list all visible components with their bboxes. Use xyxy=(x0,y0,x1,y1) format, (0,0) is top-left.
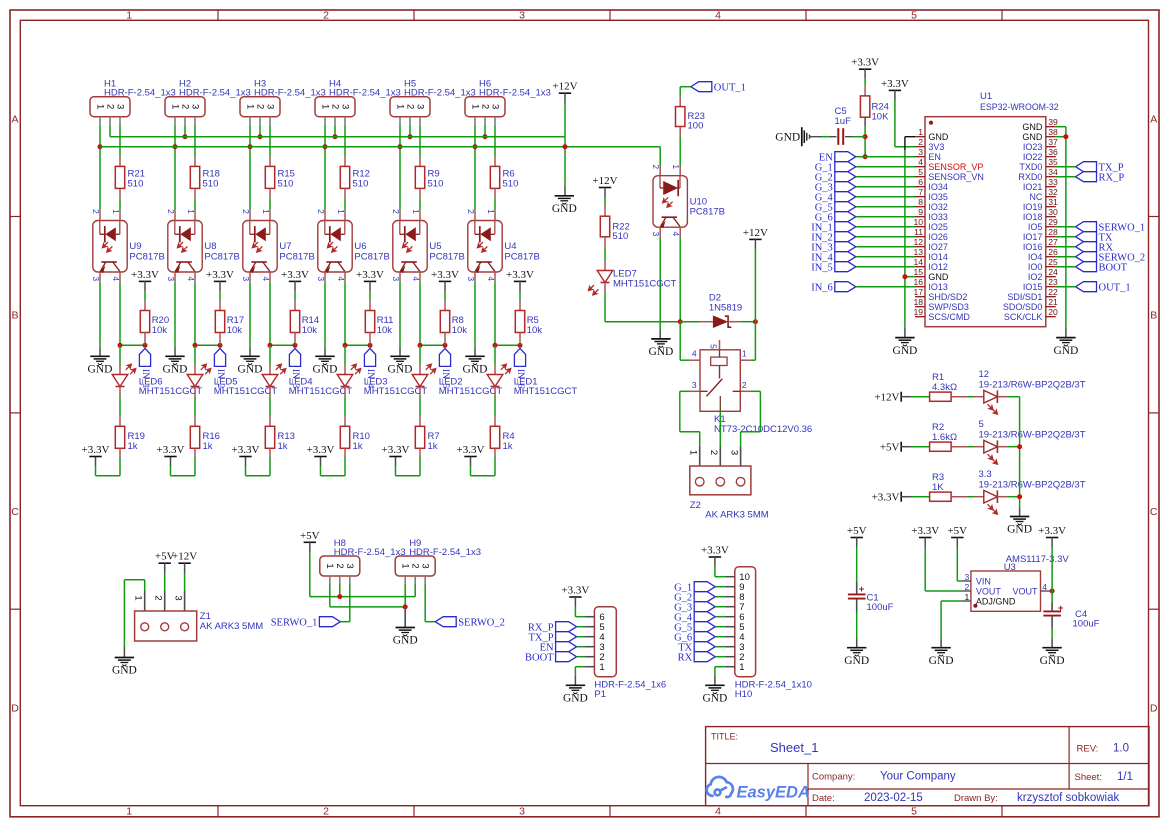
wire H3.2 to bus1 xyxy=(259,125,261,137)
pin 20 SCK/CLK (U1 right) xyxy=(1046,316,1056,318)
wire U6.3 to GND xyxy=(324,272,326,282)
svg-text:1: 1 xyxy=(688,450,699,455)
svg-text:C: C xyxy=(11,506,19,518)
junction pin15/GND rail xyxy=(902,274,907,279)
pin 26 IO4 (U1 right) xyxy=(1046,256,1056,258)
wire LED 12 to GND rail xyxy=(1008,396,1020,398)
wire K1 common to Z2.2 xyxy=(719,411,721,446)
pin 16 IO13 (U1 left) xyxy=(915,286,925,288)
net flag G_3 (H10) xyxy=(694,602,715,612)
junction EN/R24 xyxy=(863,154,868,159)
resistor R12 510 xyxy=(344,156,346,166)
svg-text:10k: 10k xyxy=(527,325,543,336)
power +3.3V for R13 xyxy=(239,456,251,458)
svg-text:SERWO_1: SERWO_1 xyxy=(271,617,318,628)
svg-text:+3.3V: +3.3V xyxy=(356,269,384,281)
LED LED7 MHT151CGCT xyxy=(604,261,606,271)
svg-text:IO22: IO22 xyxy=(1023,152,1043,162)
svg-text:GND: GND xyxy=(1022,122,1043,132)
pin 7 IO35 (U1 left) xyxy=(915,196,925,198)
resistor R2 1.6kΩ xyxy=(930,442,952,451)
wire U1 to SERWO_1 xyxy=(1056,226,1076,228)
wire LED GND rail vertical xyxy=(1019,397,1021,507)
svg-text:10k: 10k xyxy=(452,325,468,336)
net flag OUT_1 (U1 right) xyxy=(1076,282,1097,292)
power +12V for relay xyxy=(749,238,761,240)
junction H9.1/GND xyxy=(403,604,408,609)
svg-text:krzysztof sobkowiak: krzysztof sobkowiak xyxy=(1017,792,1120,804)
svg-text:7: 7 xyxy=(918,187,923,197)
wire TX_P to P1 xyxy=(577,636,585,638)
svg-text:22: 22 xyxy=(1048,287,1058,297)
wire H6.2 to bus1 xyxy=(484,125,486,137)
wire U1 to BOOT xyxy=(1056,266,1076,268)
svg-text:2: 2 xyxy=(316,209,326,214)
wire R17 to junction xyxy=(219,343,221,345)
power +5V for servos xyxy=(304,541,316,543)
LED LED2 MHT151CGCT xyxy=(419,345,421,364)
svg-text:+: + xyxy=(1058,603,1064,614)
net flag TX_P (U1 right) xyxy=(1076,162,1097,172)
svg-text:9: 9 xyxy=(918,207,923,217)
svg-text:2: 2 xyxy=(323,806,329,818)
wire EN to U1 xyxy=(856,156,915,158)
pin 27 IO16 (U1 right) xyxy=(1046,246,1056,248)
svg-text:16: 16 xyxy=(913,277,923,287)
wire EN to P1 xyxy=(577,646,585,648)
wire G_3 to H10 xyxy=(715,606,725,608)
svg-text:3: 3 xyxy=(414,104,425,109)
power +5V for C1 xyxy=(851,537,863,539)
title block xyxy=(706,727,1149,806)
pin 15 GND (U1 left) xyxy=(915,276,925,278)
ground U5.3 xyxy=(390,355,409,357)
power +3.3V for R5 xyxy=(514,280,526,282)
EasyEDA logo xyxy=(707,777,733,797)
svg-text:1uF: 1uF xyxy=(835,116,852,127)
svg-text:OUT_1: OUT_1 xyxy=(1099,282,1131,293)
wire C1 to GND xyxy=(856,612,858,639)
svg-text:4: 4 xyxy=(715,9,721,21)
svg-text:+3.3V: +3.3V xyxy=(232,444,260,456)
pin 35 TXD0 (U1 right) xyxy=(1046,166,1056,168)
net flag IN_1 (U1) xyxy=(835,222,856,232)
svg-text:3: 3 xyxy=(189,104,200,109)
svg-text:+3.3V: +3.3V xyxy=(431,269,459,281)
svg-text:+3.3V: +3.3V xyxy=(131,269,159,281)
svg-text:U1: U1 xyxy=(980,91,992,102)
ground U8.3 xyxy=(165,355,184,357)
svg-text:1N5819: 1N5819 xyxy=(709,302,742,313)
ground P1 xyxy=(566,684,585,686)
svg-text:GND: GND xyxy=(88,364,113,376)
svg-text:18: 18 xyxy=(913,297,923,307)
wire R1 to LED 12 xyxy=(951,396,967,398)
pin 18 SWP/SD3 (U1 left) xyxy=(915,306,925,308)
svg-text:3: 3 xyxy=(489,104,500,109)
junction bus2/GND drop xyxy=(563,144,568,149)
svg-text:100uF: 100uF xyxy=(867,602,894,613)
svg-text:510: 510 xyxy=(203,178,219,189)
svg-text:3: 3 xyxy=(692,380,697,390)
pin 6 IO34 (U1 left) xyxy=(915,186,925,188)
wire R15 to U7.1 xyxy=(269,198,271,210)
svg-text:1: 1 xyxy=(486,209,496,214)
svg-text:1/1: 1/1 xyxy=(1117,771,1133,783)
wire R10 to +3.3V xyxy=(344,456,346,475)
pin 37 IO23 (U1 right) xyxy=(1046,146,1056,148)
terminal Z2 AK ARK3 5MM xyxy=(699,446,701,477)
wire R11 to junction xyxy=(369,343,371,345)
pin 31 IO19 (U1 right) xyxy=(1046,206,1056,208)
ground Z1 xyxy=(115,657,134,659)
wire RX to H10 xyxy=(715,656,725,658)
wire node IN_4 horizontal xyxy=(345,344,370,346)
svg-text:510: 510 xyxy=(428,178,444,189)
svg-text:1.6kΩ: 1.6kΩ xyxy=(932,432,957,443)
svg-text:A: A xyxy=(11,113,18,125)
svg-text:U4: U4 xyxy=(504,241,516,252)
svg-text:30: 30 xyxy=(1048,207,1058,217)
wire U1 to SERWO_2 xyxy=(1056,256,1076,258)
svg-text:GND: GND xyxy=(892,345,917,357)
wire BOOT to P1 xyxy=(577,656,585,658)
wire +12V to R1 xyxy=(901,396,911,398)
svg-text:3: 3 xyxy=(519,806,525,818)
svg-text:GND: GND xyxy=(844,655,869,667)
svg-text:13: 13 xyxy=(913,247,923,257)
junction LED3 anode xyxy=(343,343,348,348)
svg-text:GND: GND xyxy=(552,203,577,215)
wire R4 to +3.3V xyxy=(494,456,496,475)
svg-text:1: 1 xyxy=(94,104,105,109)
svg-text:MHT151CGCT: MHT151CGCT xyxy=(439,386,503,397)
wire H2.2 to bus1 xyxy=(184,125,186,137)
resistor R18 510 xyxy=(194,156,196,166)
svg-text:3: 3 xyxy=(728,450,739,455)
junction H1.1/bus2 xyxy=(98,144,103,149)
junction H5.1/bus2 xyxy=(398,144,403,149)
pin 13 IO14 (U1 left) xyxy=(915,256,925,258)
svg-text:IO35: IO35 xyxy=(928,192,948,202)
svg-text:IO26: IO26 xyxy=(928,232,948,242)
wire U7.3 to GND xyxy=(249,272,251,282)
svg-text:24: 24 xyxy=(1048,267,1058,277)
wire G_6 to H10 xyxy=(715,636,725,638)
wire IN_2 to U1 xyxy=(856,236,915,238)
pin 9 IO33 (U1 left) xyxy=(915,216,925,218)
svg-text:4: 4 xyxy=(692,349,697,359)
resistor R22 510 xyxy=(604,206,606,216)
wire R18 to U8.1 xyxy=(194,198,196,210)
wire U3 ADJ/GND to GND xyxy=(941,600,961,602)
svg-text:+: + xyxy=(859,584,865,595)
optocoupler U4 PC817B xyxy=(468,221,502,273)
svg-text:1: 1 xyxy=(599,662,604,673)
svg-text:MHT151CGCT: MHT151CGCT xyxy=(289,386,353,397)
wire K1.2 to Z2.3 xyxy=(751,390,761,392)
svg-text:GND: GND xyxy=(1053,345,1078,357)
wire U1 pin1 GND down xyxy=(905,136,915,138)
resistor R3 1K xyxy=(930,492,952,501)
svg-text:2: 2 xyxy=(651,164,661,169)
svg-text:+3.3V: +3.3V xyxy=(457,444,485,456)
svg-text:IO5: IO5 xyxy=(1028,222,1043,232)
wire R20 to junction xyxy=(144,343,146,345)
pin 11 IO26 (U1 left) xyxy=(915,236,925,238)
wire H4.2 to bus1 xyxy=(334,125,336,137)
wire G_5 to H10 xyxy=(715,626,725,628)
svg-text:2: 2 xyxy=(404,104,415,109)
svg-text:4: 4 xyxy=(1042,582,1047,592)
svg-text:BOOT: BOOT xyxy=(1099,262,1128,273)
svg-text:1k: 1k xyxy=(128,441,138,452)
svg-text:2: 2 xyxy=(91,209,101,214)
junction LED rail row2 xyxy=(1017,444,1022,449)
junction H6.1/bus2 xyxy=(473,144,478,149)
svg-text:26: 26 xyxy=(1048,247,1058,257)
resistor R6 510 xyxy=(494,156,496,166)
wire +3.3V to R5 xyxy=(519,281,521,291)
junction R17 bottom xyxy=(218,343,223,348)
svg-text:2: 2 xyxy=(104,104,115,109)
pin 19 SCS/CMD (U1 left) xyxy=(915,316,925,318)
wire IN_5 to U1 xyxy=(856,266,915,268)
svg-text:2023-02-15: 2023-02-15 xyxy=(864,792,923,804)
svg-text:GND: GND xyxy=(563,693,588,705)
svg-text:+5V: +5V xyxy=(300,530,320,542)
wire IN_3 to U1 xyxy=(856,246,915,248)
wire R16 to +3.3V xyxy=(194,456,196,475)
svg-text:Date:: Date: xyxy=(812,793,835,804)
wire U5.4 to node IN_5 xyxy=(419,272,421,282)
wire H9.1 to GND rail xyxy=(404,584,406,607)
junction H6.2/bus1 xyxy=(483,134,488,139)
wire +12V drop to bus1 xyxy=(564,93,566,103)
svg-text:1k: 1k xyxy=(503,441,513,452)
svg-text:IO25: IO25 xyxy=(928,222,948,232)
svg-text:PC817B: PC817B xyxy=(504,252,539,263)
wire +5V to U3 VIN xyxy=(956,538,958,548)
pin 23 IO15 (U1 right) xyxy=(1046,286,1056,288)
wire R6 to U4.1 xyxy=(494,198,496,210)
pin 17 SHD/SD2 (U1 left) xyxy=(915,296,925,298)
resistor R8 10k xyxy=(444,300,446,310)
optocoupler U9 PC817B xyxy=(93,221,127,273)
svg-text:+3.3V: +3.3V xyxy=(701,545,729,557)
resistor R4 1k xyxy=(494,416,496,426)
junction H4.1/bus2 xyxy=(323,144,328,149)
svg-text:SDO/SD0: SDO/SD0 xyxy=(1003,302,1043,312)
svg-text:GND: GND xyxy=(393,635,418,647)
svg-text:OUT_1: OUT_1 xyxy=(714,82,746,93)
svg-text:A: A xyxy=(1150,113,1157,125)
svg-text:U8: U8 xyxy=(204,241,216,252)
svg-text:IO34: IO34 xyxy=(928,182,948,192)
pin 12 IO27 (U1 left) xyxy=(915,246,925,248)
wire G_2 to U1 xyxy=(856,176,915,178)
svg-text:+3.3V: +3.3V xyxy=(911,525,939,537)
svg-text:5: 5 xyxy=(911,9,917,21)
svg-text:14: 14 xyxy=(913,257,923,267)
power +3.3V for R4 xyxy=(464,456,476,458)
wire +12V to K1.1 xyxy=(754,239,756,249)
junction H3.2/bus1 xyxy=(258,134,263,139)
svg-text:28: 28 xyxy=(1048,227,1058,237)
svg-text:B: B xyxy=(11,310,18,322)
svg-text:12: 12 xyxy=(913,237,923,247)
svg-text:U9: U9 xyxy=(129,241,141,252)
svg-text:SWP/SD3: SWP/SD3 xyxy=(928,302,969,312)
svg-text:510: 510 xyxy=(503,178,519,189)
svg-text:10k: 10k xyxy=(302,325,318,336)
svg-text:Z2: Z2 xyxy=(690,500,701,511)
svg-text:+12V: +12V xyxy=(743,227,768,239)
svg-text:U5: U5 xyxy=(429,241,441,252)
net flag G_6 (U1) xyxy=(835,212,856,222)
svg-text:3: 3 xyxy=(339,104,350,109)
wire K1.3 to Z2.1 xyxy=(680,390,690,392)
ground C1 xyxy=(847,647,866,649)
junction H3.1/bus2 xyxy=(248,144,253,149)
svg-text:6: 6 xyxy=(918,177,923,187)
wire +3.3V to R17 xyxy=(219,281,221,291)
svg-text:17: 17 xyxy=(913,287,923,297)
terminal Z1 AK ARK3 5MM xyxy=(144,591,146,622)
svg-text:MHT151CGCT: MHT151CGCT xyxy=(514,386,578,397)
svg-text:MHT151CGCT: MHT151CGCT xyxy=(139,386,203,397)
net flag IN_4 (U1) xyxy=(835,252,856,262)
optocoupler U10 PC817B xyxy=(653,176,687,228)
wire bus2 rail xyxy=(100,146,660,148)
svg-text:+5V: +5V xyxy=(947,525,967,537)
svg-text:10k: 10k xyxy=(377,325,393,336)
svg-text:GND: GND xyxy=(1022,132,1043,142)
svg-text:+3.3V: +3.3V xyxy=(281,269,309,281)
resistor R14 10k xyxy=(294,300,296,310)
wire H5.1 to bus2 and U5.2 xyxy=(399,125,401,147)
svg-text:2: 2 xyxy=(742,380,747,390)
svg-text:1: 1 xyxy=(965,592,970,602)
svg-text:IO15: IO15 xyxy=(1023,282,1043,292)
svg-text:PC817B: PC817B xyxy=(204,252,239,263)
wire R9 to U5.1 xyxy=(419,198,421,210)
svg-text:2: 2 xyxy=(466,209,476,214)
power +5V for Z1 xyxy=(159,562,171,564)
svg-text:PC817B: PC817B xyxy=(354,252,389,263)
svg-text:SDI/SD1: SDI/SD1 xyxy=(1007,292,1042,302)
power +3.3V for R19 xyxy=(89,456,101,458)
wire U9.4 to node IN_1 xyxy=(119,272,121,282)
svg-text:8: 8 xyxy=(918,197,923,207)
svg-text:1: 1 xyxy=(319,104,330,109)
relay K1 NT73-2C10DC12V0.36 xyxy=(700,350,740,412)
svg-text:1: 1 xyxy=(400,563,411,568)
junction C5/R24 xyxy=(863,134,868,139)
wire LED1 to R4 xyxy=(494,397,496,417)
svg-text:MHT151CGCT: MHT151CGCT xyxy=(613,278,677,289)
wire LED6 to R19 xyxy=(119,397,121,417)
svg-text:GND: GND xyxy=(1007,524,1032,536)
wire U8.4 to node IN_2 xyxy=(194,272,196,282)
svg-text:21: 21 xyxy=(1048,297,1058,307)
pin 33 IO21 (U1 right) xyxy=(1046,186,1056,188)
wire U10.4 to relay node xyxy=(679,227,681,237)
net flag G_3 (U1) xyxy=(835,182,856,192)
svg-text:2: 2 xyxy=(479,104,490,109)
junction U3.4/C4 xyxy=(1050,589,1055,594)
ground H10 xyxy=(705,684,724,686)
wire G_4 to U1 xyxy=(856,196,915,198)
svg-text:19-213/R6W-BP2Q2B/3T: 19-213/R6W-BP2Q2B/3T xyxy=(979,430,1086,441)
wire R14 to junction xyxy=(294,343,296,345)
LED LED5 MHT151CGCT xyxy=(194,345,196,364)
svg-text:33: 33 xyxy=(1048,177,1058,187)
wire LED2 to R7 xyxy=(419,397,421,417)
pin 32 NC (U1 right) xyxy=(1046,196,1056,198)
wire LED7 to relay row xyxy=(604,293,606,322)
junction R14 bottom xyxy=(293,343,298,348)
svg-text:25: 25 xyxy=(1048,257,1058,267)
wire LED 3.3 to GND rail xyxy=(1008,496,1020,498)
ground LED rail xyxy=(1010,516,1029,518)
svg-text:GND: GND xyxy=(1040,655,1065,667)
wire U5.3 to GND xyxy=(399,272,401,282)
svg-text:Sheet_1: Sheet_1 xyxy=(770,740,818,755)
svg-text:1: 1 xyxy=(739,662,744,673)
svg-text:RX: RX xyxy=(678,652,693,663)
svg-text:10k: 10k xyxy=(227,325,243,336)
svg-text:20: 20 xyxy=(1048,307,1058,317)
svg-text:510: 510 xyxy=(612,231,628,242)
wire +3.3V to R14 xyxy=(294,281,296,291)
wire R12 to U6.1 xyxy=(344,198,346,210)
junction LED2 anode xyxy=(418,343,423,348)
svg-text:GND: GND xyxy=(463,364,488,376)
power +3.3V for 3V3 pin xyxy=(889,89,901,91)
svg-text:39: 39 xyxy=(1048,117,1058,127)
svg-text:IN_5: IN_5 xyxy=(811,262,833,273)
svg-text:EasyEDA: EasyEDA xyxy=(737,783,810,801)
svg-text:2: 2 xyxy=(708,450,719,455)
svg-text:1k: 1k xyxy=(278,441,288,452)
wire U1 to RX_P xyxy=(1056,176,1076,178)
power +3.3V for R20 xyxy=(139,280,151,282)
ground bus2 xyxy=(555,195,574,197)
junction R8 bottom xyxy=(443,343,448,348)
wire H1.2 to bus1 xyxy=(109,125,111,137)
pin 21 SDO/SD0 (U1 right) xyxy=(1046,306,1056,308)
svg-text:SERWO_2: SERWO_2 xyxy=(458,617,505,628)
svg-text:11: 11 xyxy=(914,227,923,237)
wire H1.1 to bus2 and U9.2 xyxy=(99,125,101,147)
power +12V for Z1 xyxy=(178,562,190,564)
wire U9.3 to GND xyxy=(99,272,101,282)
wire R19 to +3.3V xyxy=(119,456,121,475)
net flag G_1 (U1) xyxy=(835,162,856,172)
pin 4 SENSOR_VP (U1 left) xyxy=(915,166,925,168)
capacitor C5 1uF xyxy=(809,136,822,138)
wire G_4 to H10 xyxy=(715,616,725,618)
wire bus1 to bus2 to GND xyxy=(564,137,566,147)
svg-text:IO18: IO18 xyxy=(1023,212,1043,222)
svg-text:4: 4 xyxy=(715,806,721,818)
junction pin38/GND rail xyxy=(1063,134,1068,139)
junction H8.2 xyxy=(337,594,342,599)
svg-text:4: 4 xyxy=(918,157,923,167)
resistor R13 1k xyxy=(269,416,271,426)
svg-text:GND: GND xyxy=(163,364,188,376)
